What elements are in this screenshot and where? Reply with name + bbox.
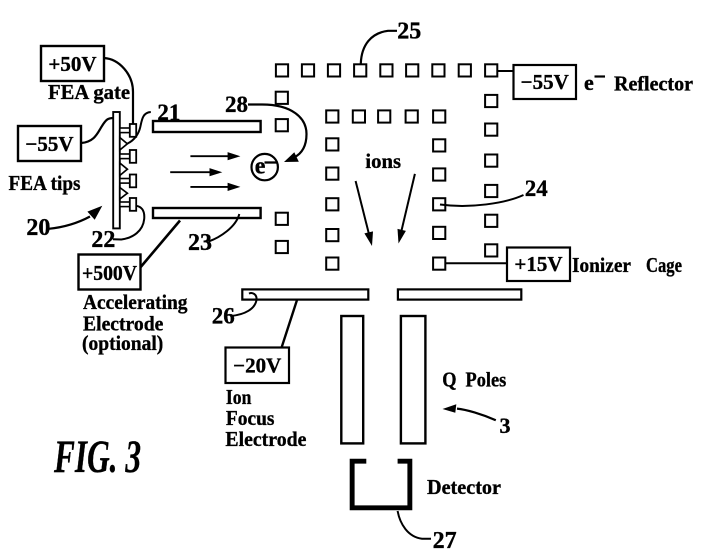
cage top row square 3	[328, 64, 340, 76]
leader from 26 to left plate	[231, 293, 257, 316]
detector cup (element 27)	[350, 459, 413, 511]
svg-text:Ionizer: Ionizer	[572, 253, 631, 277]
cage top row square 7	[432, 64, 444, 76]
cage outer-left column square 1	[276, 92, 288, 104]
ion focus plate right	[398, 289, 521, 299]
svg-text:23: 23	[188, 230, 212, 256]
svg-text:Reflector: Reflector	[614, 72, 693, 96]
cage inner top row square 2	[353, 110, 365, 122]
label e- (reflector)	[584, 70, 605, 95]
svg-text:+50V: +50V	[48, 52, 96, 76]
lower extraction plate (element 23)	[153, 208, 261, 218]
voltage box -55V (FEA tips)	[18, 126, 81, 161]
leader arrow from 28 to electron	[248, 105, 307, 163]
cage outer-right column square 1	[485, 95, 497, 107]
svg-text:28: 28	[225, 92, 248, 117]
gate stem 3	[120, 179, 131, 184]
cage inner top row square 3	[378, 110, 390, 122]
emitter tip triangle 3	[120, 188, 128, 200]
svg-text:(optional): (optional)	[82, 331, 163, 355]
svg-text:20: 20	[26, 215, 50, 241]
gate cap 4	[130, 198, 136, 211]
FEA substrate plate 20	[113, 112, 120, 228]
cage top row square 2	[302, 64, 314, 76]
svg-text:Q Poles: Q Poles	[442, 368, 506, 392]
voltage box -55V (reflector)	[514, 65, 577, 99]
wire from -55V box to FEA substrate	[81, 118, 113, 143]
svg-text:ions: ions	[365, 149, 401, 173]
Q pole right rod	[401, 316, 426, 443]
cage inner-left column square 2	[326, 168, 338, 180]
svg-text:−20V: −20V	[233, 354, 281, 378]
cage top row square 8	[459, 64, 471, 76]
cage inner-right column square 1	[433, 139, 445, 151]
cage outer-right column square 6	[485, 244, 497, 256]
svg-text:+15V: +15V	[514, 252, 562, 276]
leader from 24 to cage square	[440, 195, 524, 206]
cage top row square 6	[406, 64, 418, 76]
cage inner-right column square 5	[433, 258, 445, 270]
Q pole left rod	[341, 316, 363, 443]
cage inner top row square 1	[326, 110, 338, 122]
cage top row square 9	[485, 64, 497, 76]
electron beam arrow 2	[170, 168, 222, 176]
leader from 23 to lower plate	[209, 214, 240, 242]
gate cap 3	[130, 175, 136, 188]
ion focus plate left (element 26)	[242, 289, 368, 299]
gate cap 2	[130, 150, 136, 163]
cage outer-left column square 3	[276, 213, 288, 225]
connector from +500V box to lower plate	[141, 221, 180, 268]
svg-text:e: e	[584, 70, 594, 95]
svg-text:27: 27	[433, 528, 457, 554]
gate stem 1	[120, 128, 131, 133]
svg-text:−55V: −55V	[25, 132, 73, 156]
gate cap 1	[130, 124, 136, 137]
svg-text:22: 22	[91, 227, 115, 253]
leader from 27 to detector	[398, 511, 431, 539]
svg-text:Detector: Detector	[427, 475, 501, 499]
cage inner-right column square 4	[433, 227, 445, 239]
svg-text:FEA gate: FEA gate	[48, 80, 130, 104]
electron beam arrow 3	[190, 183, 240, 191]
cage outer-left column square 4	[276, 241, 288, 253]
upper extraction plate (element 21)	[153, 121, 261, 132]
connector from left plate to -20V box	[282, 300, 297, 348]
gate stem 4	[120, 202, 131, 207]
leader from 25 to cage top row	[361, 31, 397, 64]
leader arrow from 3 to Q poles	[443, 404, 496, 420]
cage inner top row square 4	[406, 110, 418, 122]
leader from 21 to gate region	[128, 112, 151, 144]
svg-text:−55V: −55V	[521, 70, 569, 94]
cage inner-right column square 3	[433, 198, 445, 210]
cage inner-left column square 1	[326, 138, 338, 150]
cage inner-left column square 3	[326, 198, 338, 210]
wire from +50V box to gate electrode	[104, 58, 133, 124]
gate stem 2	[120, 154, 131, 159]
emitter tip triangle 2	[120, 163, 128, 176]
electron symbol e-	[252, 154, 278, 181]
wire from cage to +15V box	[445, 262, 507, 264]
cage inner-left column square 5	[326, 258, 338, 270]
leader from 22 to lower gate cap	[113, 206, 144, 240]
svg-text:e: e	[255, 154, 266, 180]
cage outer-right column square 2	[485, 124, 497, 136]
cage top row square 5	[380, 64, 392, 76]
cage outer-right column square 4	[485, 185, 497, 197]
svg-text:+500V: +500V	[82, 261, 137, 285]
svg-text:Accelerating: Accelerating	[83, 290, 188, 314]
ion path arrow right	[398, 174, 415, 244]
cage inner top row square 5	[433, 110, 445, 122]
voltage box +500V	[79, 255, 141, 290]
electron beam arrow 1	[190, 152, 240, 160]
leader arrow from 20 to FEA substrate	[49, 206, 103, 229]
svg-text:Electrode: Electrode	[225, 427, 306, 451]
cage inner-right column square 2	[433, 168, 445, 180]
cage top row square 1	[276, 64, 288, 76]
cage inner-left column square 4	[326, 229, 338, 241]
ion path arrow left	[356, 181, 373, 246]
voltage box -20V	[226, 348, 290, 384]
svg-text:24: 24	[525, 176, 549, 201]
svg-text:FEA tips: FEA tips	[9, 171, 81, 195]
svg-text:FIG. 3: FIG. 3	[53, 431, 141, 483]
cage outer-right column square 5	[485, 215, 497, 227]
emitter tip triangle 1	[120, 138, 128, 151]
wire from cage to -55V reflector box	[497, 70, 513, 72]
voltage box +50V	[41, 46, 104, 81]
cage outer-right column square 3	[485, 155, 497, 167]
cage top row square 4	[354, 64, 366, 76]
svg-text:3: 3	[500, 413, 511, 438]
svg-text:25: 25	[397, 19, 421, 45]
svg-text:Cage: Cage	[646, 253, 682, 277]
voltage box +15V	[507, 248, 570, 282]
cage outer-left column square 2	[276, 119, 288, 131]
